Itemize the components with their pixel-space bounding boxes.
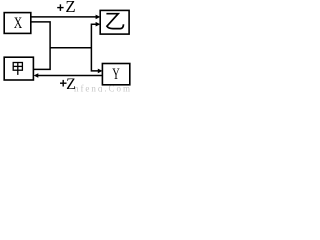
arrowhead into 甲 input bbox=[34, 73, 39, 78]
wire X lower output down and left into 甲 bbox=[31, 22, 50, 70]
svg-text:Z: Z bbox=[66, 76, 76, 92]
label +Z (top) bbox=[57, 4, 63, 11]
label 乙 (drawn) bbox=[106, 14, 123, 29]
label 甲 (drawn) bbox=[13, 63, 22, 75]
box X bbox=[4, 13, 31, 34]
box Y bbox=[102, 64, 129, 85]
label +Z (bottom) bbox=[60, 80, 67, 87]
arrowhead into Y input bbox=[98, 69, 103, 74]
wire Y output left into 甲 bbox=[37, 75, 102, 77]
svg-text:Z: Z bbox=[65, 0, 75, 16]
svg-text:Y: Y bbox=[112, 66, 120, 83]
arrowhead into 乙 lower input bbox=[96, 22, 101, 27]
arrowhead into 乙 top input bbox=[96, 15, 101, 20]
svg-text:X: X bbox=[14, 15, 23, 32]
wire X to 乙 (top) bbox=[31, 16, 97, 18]
box 甲 bbox=[4, 57, 33, 80]
box 乙 bbox=[100, 10, 129, 34]
wire branch to middle vertical bbox=[50, 47, 91, 49]
wire middle vertical up to 乙, down to Y bbox=[91, 24, 99, 71]
